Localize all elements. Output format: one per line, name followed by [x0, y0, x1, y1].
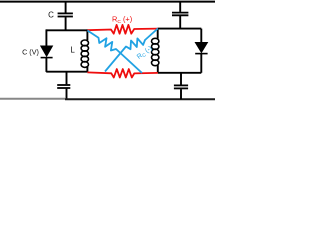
left tank bottom wire [46, 71, 87, 73]
right tank right side lower wire [200, 54, 202, 73]
inductor L (left tank) [81, 40, 88, 67]
left tank right side lower wire [86, 67, 88, 72]
resistor bottom coupling (red) [87, 69, 157, 77]
resistor Rc(-) cross coupling descending (blue) [88, 31, 143, 74]
svg-text:RC (+): RC (+) [112, 15, 132, 26]
right tank right side upper wire [200, 29, 202, 43]
wire: capacitor C to left tank top [65, 17, 67, 30]
varactor diode C(V) [41, 46, 53, 58]
right tank bottom wire [158, 72, 202, 74]
inductor (right tank) [152, 38, 159, 65]
wire: left tank bottom to bypass capacitor [66, 72, 68, 85]
wire: right capacitor to right tank top [179, 16, 181, 29]
diode (right tank) [195, 42, 207, 53]
ground rail (black, right part) [65, 98, 215, 100]
capacitor (top right) [172, 13, 188, 16]
wire: bypass capacitor to ground rail [180, 89, 182, 99]
left tank box top wire [46, 29, 87, 31]
resistor Rc(-) cross coupling ascending (blue) [105, 29, 158, 72]
wire: right tank bottom to bypass capacitor [180, 73, 182, 85]
ground rail (gray, left part) [0, 98, 66, 100]
resistor Rc(+) top coupling (red) [87, 25, 157, 34]
svg-text:C: C [48, 10, 54, 19]
capacitor (bottom right bypass) [174, 85, 188, 88]
wire: top rail to capacitor C [65, 2, 67, 13]
left tank left side upper wire [45, 29, 47, 46]
capacitor (bottom left bypass) [57, 85, 70, 88]
left tank left side lower wire [45, 58, 47, 72]
right tank box top wire [158, 28, 202, 30]
svg-text:C (V): C (V) [22, 48, 39, 57]
right tank left side lower wire [157, 65, 159, 73]
wire: bypass capacitor to ground rail [66, 89, 68, 100]
left tank right side upper wire [86, 29, 88, 40]
wire: top rail to right capacitor [179, 2, 181, 12]
right tank left side upper wire [157, 28, 159, 38]
capacitor C (top left) [58, 13, 73, 16]
top supply rail [0, 1, 215, 3]
svg-text:L: L [70, 46, 75, 55]
